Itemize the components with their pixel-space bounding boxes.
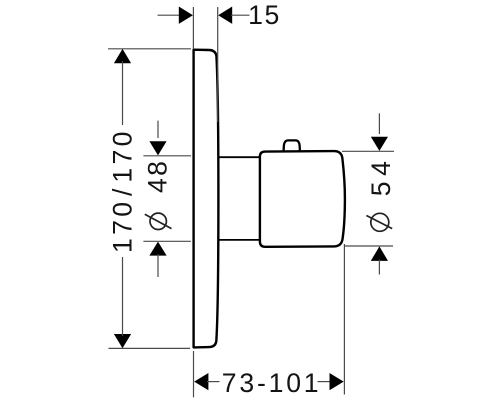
- svg-text:48: 48: [143, 159, 173, 193]
- svg-text:15: 15: [248, 0, 281, 30]
- dim 170/170: top arrowhead: [114, 49, 131, 63]
- dim 54: diameter symbol circle: [371, 213, 389, 231]
- svg-text:73-101: 73-101: [222, 368, 322, 398]
- dim 73-101: right extension line: [343, 244, 345, 395]
- dim 54: diameter symbol slash: [366, 216, 392, 229]
- dim 48: diameter symbol circle: [150, 213, 166, 229]
- dim 15: left extension line: [192, 7, 194, 49]
- sleeve (neck) top edge: [218, 156, 260, 158]
- svg-text:170/170: 170/170: [107, 128, 137, 253]
- sleeve (neck) bottom edge: [218, 239, 260, 241]
- dim 54: upper arrowhead (points down): [371, 137, 388, 151]
- dim 73-101: right stub line: [318, 381, 331, 383]
- dim 73-101: left extension line: [193, 351, 195, 397]
- dim 170/170: bottom arrowhead: [114, 334, 131, 348]
- dim 73-101: left arrowhead (points left): [194, 373, 208, 390]
- dim 54: bottom tick line: [344, 245, 393, 247]
- knob top button: [284, 140, 300, 152]
- dim 170/170: bottom tick line: [109, 347, 191, 349]
- dim 54: top tick line: [342, 150, 394, 152]
- dim 48: top tick line: [143, 155, 191, 157]
- dim 15: left lead line: [158, 14, 181, 16]
- dim 170/170: upper line segment: [122, 61, 124, 125]
- dim 15: right arrowhead: [218, 7, 232, 24]
- dim 48: upper line segment: [157, 121, 159, 138]
- svg-text:54: 54: [366, 156, 396, 197]
- dim 48: upper arrowhead (points down): [149, 141, 166, 155]
- dim 15: right extension line: [217, 7, 219, 122]
- dim 15: left arrowhead: [179, 7, 193, 24]
- dim 73-101: left stub line: [207, 381, 220, 383]
- dim 48: lower arrowhead (points up): [149, 242, 166, 256]
- dim 54: lower arrowhead (points up): [371, 246, 388, 261]
- dim 170/170: top tick line: [108, 48, 191, 50]
- dim 48: bottom tick line: [143, 240, 190, 242]
- thermostat knob outline: [260, 151, 345, 247]
- dim 170/170: lower line segment: [122, 257, 124, 336]
- dim 48: diameter symbol slash: [145, 214, 172, 228]
- dim 48: lower line segment: [157, 254, 159, 277]
- wall plate (escutcheon) side view outline: [194, 50, 219, 348]
- dim 73-101: right arrowhead (points right): [330, 373, 344, 390]
- dim 15: right lead line: [231, 14, 250, 16]
- dim 54: upper line segment: [378, 113, 380, 134]
- dim 54: lower line segment: [378, 260, 380, 275]
